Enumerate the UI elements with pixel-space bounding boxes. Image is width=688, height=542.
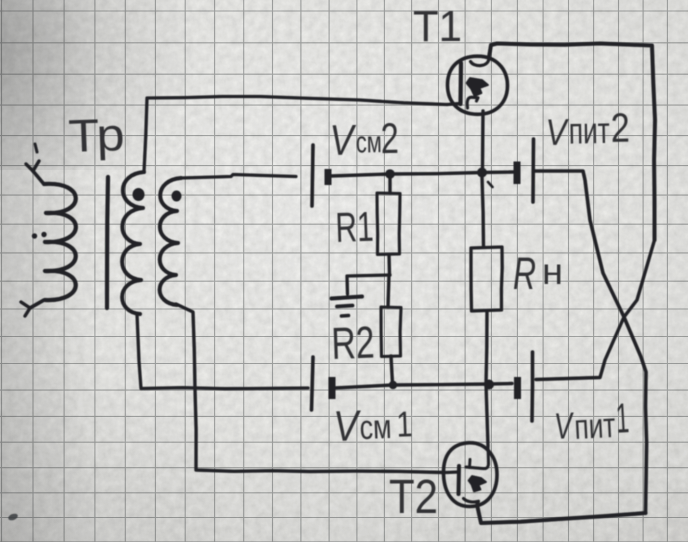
svg-text:Т1: Т1 [413,2,462,51]
svg-text:2: 2 [610,105,630,151]
svg-text:R: R [513,248,536,299]
wire Rн to T2 collector [486,311,488,446]
svg-text:см: см [356,126,383,159]
svg-text:2: 2 [380,115,399,163]
wire Vсм2 to R1/T1 emitter node [331,172,513,176]
transformer Tr core [107,177,108,308]
battery Vсм1 [312,357,333,410]
svg-text:1: 1 [615,394,630,442]
transistor T2 [443,443,497,507]
junction node R2 bottom [389,381,397,389]
battery Vсм2 [312,145,328,206]
label Vпит1 [553,394,631,448]
svg-text:см: см [359,408,392,447]
label Rн [513,248,563,299]
transformer Tr secondary winding 2 [160,178,182,305]
wire Vсм1 to R2/T2 collector node [335,384,512,389]
resistor Rн [471,247,502,311]
wire secondary1 top to T1 base [144,97,447,173]
ground [332,297,363,317]
resistor R2 [381,275,401,384]
svg-text:пит: пит [573,406,616,447]
svg-text:н: н [542,251,563,292]
svg-text:R2: R2 [331,317,376,369]
svg-text:R1: R1 [335,203,375,251]
svg-text:пит: пит [568,110,610,152]
wire node to ground [347,275,390,294]
wire T1 emitter node to Rн [482,177,484,247]
wire secondary2 bottom to T2 base [176,304,445,473]
resistor R1 [377,176,400,275]
label Vпит2 [545,105,630,153]
wire secondary2 top to Vсм2 battery [181,175,296,179]
label Vсм2 [329,115,399,165]
junction node T1 emitter [477,168,487,178]
svg-text:1: 1 [396,403,413,445]
battery Vпит1 [518,352,533,421]
svg-text:Т2: Т2 [389,471,438,524]
svg-text:V: V [545,112,570,153]
wire bottom rail to T2 emitter [478,507,646,523]
wire T1 collector to right rail [489,44,655,241]
svg-text:Тр: Тр [68,108,126,162]
battery Vпит2 [517,139,534,202]
wire Vпит2 to bottom rail (crossing) [535,171,647,513]
junction node T2 collector [484,380,494,390]
label Vсм1 [333,400,414,451]
junction node R1 top [385,169,395,179]
wire secondary1 bottom to Vсм1 battery [137,314,308,389]
transformer Tr primary winding [21,161,76,316]
transformer Tr secondary winding 1 [122,172,144,314]
wire right rail to Vпит1 (crossing) [536,240,655,380]
transistor T1 [447,56,508,168]
